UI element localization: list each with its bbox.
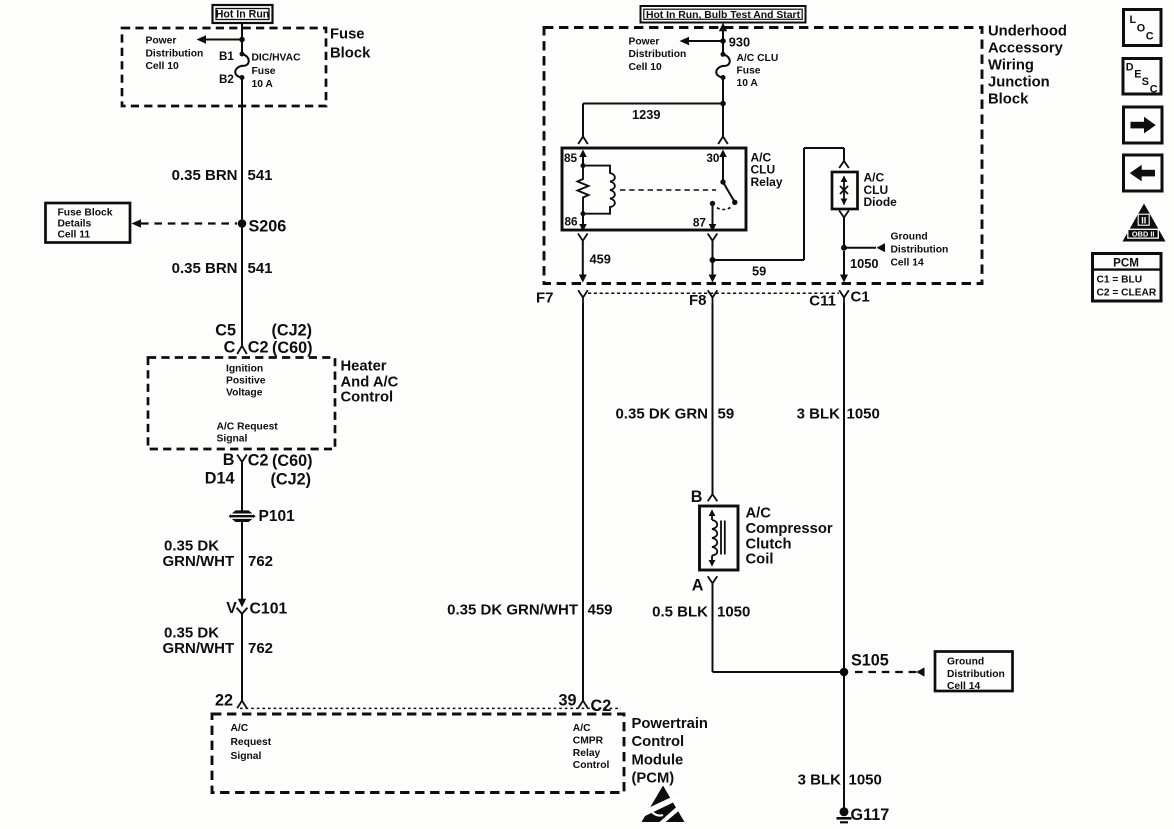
power distribution arrow [197, 35, 241, 43]
relay coil resistor [578, 163, 589, 216]
svg-text:541: 541 [248, 260, 273, 277]
wire to P101 [241, 462, 243, 511]
connector C11 / C1 [809, 288, 869, 309]
svg-text:B: B [223, 451, 235, 469]
svg-text:CMPR: CMPR [573, 735, 604, 746]
label 0.35 BRN 541 (lower) [172, 260, 273, 277]
svg-text:A/C CLU: A/C CLU [737, 53, 779, 64]
svg-text:Positive: Positive [226, 375, 266, 386]
svg-text:Fuse: Fuse [737, 66, 761, 77]
svg-text:(CJ2): (CJ2) [271, 470, 311, 488]
svg-text:Accessory: Accessory [988, 40, 1064, 56]
svg-text:1050: 1050 [717, 604, 750, 621]
svg-text:O: O [1137, 23, 1145, 35]
label Heater And A/C Control [341, 359, 399, 406]
svg-text:Cell 14: Cell 14 [947, 681, 980, 692]
svg-text:Wiring: Wiring [988, 57, 1034, 73]
svg-text:E: E [1134, 69, 1141, 81]
svg-text:Ground: Ground [947, 657, 984, 668]
svg-text:Details: Details [58, 218, 92, 229]
wire 0.35 DK GRN 59 [712, 304, 714, 495]
label 3 BLK 1050 (upper) [797, 405, 880, 422]
wire fuse to node 1239 [722, 78, 724, 104]
svg-text:10 A: 10 A [252, 79, 274, 90]
relay actuation dashed link [620, 189, 716, 191]
svg-text:39: 39 [558, 691, 576, 709]
svg-text:F7: F7 [536, 289, 554, 306]
connector below diode [839, 211, 849, 218]
button next page arrow [1124, 107, 1163, 143]
label 0.5 BLK 1050 [652, 604, 750, 621]
PCM connector color legend [1093, 254, 1162, 302]
svg-text:930: 930 [729, 34, 750, 49]
wire 59 drop [712, 241, 714, 260]
svg-text:Fuse: Fuse [330, 26, 365, 42]
svg-text:459: 459 [590, 252, 611, 267]
svg-text:Ignition: Ignition [226, 363, 263, 374]
svg-text:C2: C2 [591, 697, 612, 715]
ground G117 [837, 806, 890, 824]
svg-text:Distribution: Distribution [891, 245, 949, 256]
svg-text:DIC/HVAC: DIC/HVAC [252, 53, 302, 64]
label 0.35 DK GRN/WHT 762 (upper) [163, 537, 274, 570]
svg-text:Hot In Run: Hot In Run [216, 9, 270, 21]
relay coil inductor [583, 166, 615, 214]
svg-text:1050: 1050 [849, 771, 882, 788]
svg-text:Clutch: Clutch [746, 536, 792, 552]
svg-text:0.5 BLK: 0.5 BLK [652, 604, 708, 621]
connector F8 [689, 290, 717, 309]
svg-text:Junction: Junction [988, 74, 1050, 90]
wire 0.35 BRN 541 lower [241, 228, 243, 341]
svg-text:Fuse Block: Fuse Block [58, 207, 113, 218]
svg-text:B: B [691, 488, 703, 506]
svg-text:Diode: Diode [864, 195, 898, 209]
svg-text:Fuse: Fuse [252, 66, 276, 77]
wire C1 drop with arrow [840, 251, 848, 283]
node 1239 branch [720, 101, 726, 107]
A/C CLU relay box [562, 148, 746, 230]
relay pin 85 [564, 150, 587, 167]
svg-text:Ground: Ground [891, 232, 928, 243]
label Ground Distribution Cell 14 (upper) [891, 232, 949, 269]
label A/C CMPR Relay Control [573, 723, 610, 771]
ground distribution reference arrow (diode) [844, 243, 885, 252]
svg-text:Control: Control [341, 390, 394, 406]
svg-text:C1: C1 [851, 288, 870, 305]
svg-text:762: 762 [248, 553, 273, 570]
svg-text:Control: Control [573, 760, 610, 771]
svg-text:P101: P101 [259, 508, 296, 525]
svg-text:C2 = CLEAR: C2 = CLEAR [1097, 288, 1157, 299]
label 3 BLK 1050 (lower) [798, 771, 882, 788]
connector C101 [226, 599, 287, 618]
A/C CLU diode [832, 172, 858, 209]
svg-text:G117: G117 [851, 806, 890, 824]
reference arrow to fuse block details [132, 219, 238, 227]
node 59 junction [710, 257, 716, 263]
relay pin 86 [565, 214, 587, 232]
label Powertrain Control Module (PCM) [632, 716, 708, 786]
reference arrow to ground distribution [855, 667, 925, 676]
svg-text:(C60): (C60) [272, 339, 312, 357]
wire hot-in-run feed [241, 23, 243, 52]
underhood accessory wiring junction block dashed box [544, 28, 982, 284]
label DIC/HVAC Fuse 10 A [252, 53, 302, 91]
svg-text:0.35 DK GRN: 0.35 DK GRN [615, 405, 708, 422]
svg-text:D: D [1126, 62, 1134, 74]
svg-text:Power: Power [629, 36, 660, 47]
svg-text:Powertrain: Powertrain [632, 716, 708, 732]
svg-text:30: 30 [706, 151, 720, 165]
wire 0.35 DK GRN/WHT 762 upper [241, 521, 243, 600]
svg-text:0.35 DK: 0.35 DK [164, 624, 219, 641]
label Ignition Positive Voltage [226, 363, 266, 398]
svg-text:1239: 1239 [632, 107, 660, 122]
fuse A/C CLU 10 A [716, 52, 730, 80]
label 0.35 DK GRN/WHT 762 (lower) [163, 624, 274, 657]
svg-text:And A/C: And A/C [341, 374, 399, 390]
node splice S105 [840, 651, 889, 676]
button DESC [1123, 59, 1161, 96]
label 0.35 DK GRN/WHT 459 [447, 602, 612, 619]
label A/C Request Signal [217, 422, 279, 445]
label 1050 (junction block) [850, 256, 878, 271]
node power distribution tap [239, 37, 245, 43]
svg-text:C101: C101 [250, 600, 288, 617]
wire 0.5 BLK 1050 [713, 583, 842, 672]
svg-text:Voltage: Voltage [226, 387, 263, 398]
svg-text:F8: F8 [689, 292, 707, 309]
svg-text:Request: Request [231, 737, 272, 748]
svg-text:0.35 BRN: 0.35 BRN [172, 260, 238, 277]
svg-text:3 BLK: 3 BLK [797, 405, 841, 422]
svg-text:Distribution: Distribution [146, 48, 204, 59]
powertrain control module dashed box [212, 714, 624, 793]
relay pin 30 arrow [706, 150, 726, 183]
svg-text:Heater: Heater [341, 359, 387, 375]
svg-text:Control: Control [632, 734, 685, 750]
svg-text:Cell 11: Cell 11 [58, 229, 91, 240]
fuse DIC/HVAC 10 A [235, 54, 249, 78]
OBD II symbol [1123, 204, 1166, 242]
svg-text:Compressor: Compressor [746, 521, 833, 537]
svg-text:1050: 1050 [847, 405, 880, 422]
power distribution arrow (right) [680, 37, 722, 45]
label Power Distribution Cell 10 (right) [629, 36, 687, 72]
junction block bottom connector dotted line [588, 292, 839, 294]
svg-text:A/C Request: A/C Request [217, 422, 279, 433]
connector into relay pin 30 [718, 137, 728, 145]
label box Fuse Block Details Cell 11 [46, 203, 131, 243]
svg-text:S206: S206 [249, 217, 287, 235]
wire 3 BLK 1050 to ground [843, 672, 845, 808]
connector C5 / C2 (C60) [215, 321, 312, 357]
wire 459 [579, 241, 587, 283]
wire fuse to relay pin 30 [722, 104, 724, 137]
wire 0.35 BRN 541 upper [241, 78, 243, 220]
svg-text:GRN/WHT: GRN/WHT [163, 553, 235, 570]
svg-text:A: A [692, 576, 704, 594]
svg-text:Signal: Signal [231, 751, 262, 762]
svg-text:Distribution: Distribution [947, 669, 1005, 680]
svg-text:Relay: Relay [751, 175, 783, 189]
ESD sensitive device symbol [642, 786, 685, 823]
svg-text:B1: B1 [219, 50, 234, 63]
svg-text:3 BLK: 3 BLK [798, 771, 842, 788]
svg-text:0.35 DK GRN/WHT: 0.35 DK GRN/WHT [447, 602, 578, 619]
svg-text:S105: S105 [851, 651, 889, 669]
connector into relay pin 85 [578, 137, 588, 145]
label A/C Request Signal (PCM) [231, 723, 272, 762]
svg-text:C2: C2 [248, 339, 269, 357]
svg-text:PCM: PCM [1113, 256, 1139, 269]
pin B1 [219, 50, 245, 63]
label A/C CLU Fuse 10 A [737, 53, 779, 89]
svg-text:B2: B2 [219, 73, 234, 86]
label Hot In Run (power feed) [213, 5, 273, 23]
label 0.35 BRN 541 (upper) [172, 167, 273, 184]
PCM connector dotted line [240, 707, 621, 709]
wire F8 drop with arrow [709, 260, 717, 283]
grommet P101 [230, 508, 295, 525]
svg-text:A/C: A/C [746, 506, 772, 522]
wire 1239 horizontal [583, 104, 723, 137]
svg-text:C2: C2 [248, 451, 269, 469]
heater and A/C control dashed box [148, 358, 335, 450]
svg-text:Signal: Signal [217, 434, 248, 445]
svg-text:(CJ2): (CJ2) [272, 321, 312, 339]
button previous page arrow [1124, 155, 1163, 191]
label A/C Compressor Clutch Coil [746, 506, 833, 568]
svg-text:Hot In Run, Bulb Test And Star: Hot In Run, Bulb Test And Start [646, 10, 801, 21]
svg-text:C11: C11 [809, 292, 836, 309]
svg-text:(C60): (C60) [272, 452, 312, 470]
svg-text:Cell 10: Cell 10 [629, 62, 662, 73]
pin B of compressor clutch coil [691, 488, 718, 506]
svg-text:85: 85 [564, 151, 578, 165]
label 0.35 DK GRN 59 [615, 405, 734, 422]
fuse block dashed box [122, 28, 326, 106]
relay pin 87 [693, 204, 716, 232]
connector F7 [536, 289, 588, 306]
svg-text:(PCM): (PCM) [632, 770, 675, 786]
svg-text:762: 762 [248, 640, 273, 657]
pin B2 [219, 73, 245, 86]
pin A of compressor clutch coil [692, 576, 718, 594]
svg-text:Cell 14: Cell 14 [891, 258, 924, 269]
svg-text:A/C: A/C [231, 723, 249, 734]
svg-text:II: II [1141, 216, 1146, 226]
relay switch [710, 179, 738, 209]
label Fuse Block [330, 26, 371, 61]
svg-text:Power: Power [146, 36, 177, 47]
label Power Distribution Cell 10 [146, 36, 204, 72]
svg-text:OBD II: OBD II [1132, 230, 1155, 239]
wire 0.35 DK GRN/WHT 762 lower [241, 614, 243, 701]
pin 39 / C2 into PCM [558, 691, 611, 715]
svg-text:Underhood: Underhood [988, 23, 1067, 39]
svg-text:Block: Block [330, 45, 371, 61]
connector B / C2 (C60) / D14 (CJ2) [205, 451, 313, 489]
label A/C CLU Diode [864, 171, 898, 210]
label box Ground Distribution Cell 14 [935, 652, 1013, 693]
A/C compressor clutch coil box [700, 506, 739, 570]
wire 0.35 DK GRN/WHT 459 [582, 304, 584, 701]
svg-text:541: 541 [248, 167, 273, 184]
svg-text:86: 86 [565, 214, 579, 228]
svg-text:59: 59 [718, 405, 735, 422]
svg-text:V: V [226, 600, 237, 617]
connector below pin 87 [708, 234, 718, 241]
button LOC [1124, 10, 1162, 46]
svg-text:L: L [1130, 14, 1137, 26]
svg-text:Module: Module [632, 752, 684, 768]
svg-text:C: C [1150, 83, 1158, 95]
svg-text:Coil: Coil [746, 552, 774, 568]
svg-text:Distribution: Distribution [629, 49, 687, 60]
svg-text:459: 459 [588, 602, 613, 619]
svg-text:1050: 1050 [850, 256, 878, 271]
svg-text:Relay: Relay [573, 748, 601, 759]
svg-text:A/C: A/C [573, 723, 591, 734]
wire 59 horizontal to diode branch [713, 148, 845, 260]
svg-text:S: S [1142, 76, 1149, 88]
node ground distribution tap [841, 245, 847, 251]
svg-text:Block: Block [988, 91, 1029, 107]
svg-text:59: 59 [752, 263, 766, 278]
svg-text:0.35 DK: 0.35 DK [164, 537, 219, 554]
label A/C CLU Relay [751, 150, 783, 189]
svg-text:87: 87 [693, 215, 707, 229]
compressor coil element [709, 510, 725, 567]
label 59 [752, 263, 766, 278]
svg-text:GRN/WHT: GRN/WHT [163, 640, 235, 657]
wire diode to ground tap [843, 218, 845, 248]
svg-text:C: C [1146, 30, 1154, 42]
svg-text:C1 = BLU: C1 = BLU [1097, 275, 1143, 286]
svg-text:22: 22 [215, 691, 233, 709]
label Hot In Run, Bulb Test And Start [641, 6, 806, 23]
svg-text:C5: C5 [215, 321, 236, 339]
label Underhood Accessory Wiring Junction Block [988, 23, 1067, 107]
wire into junction block with up arrow [719, 23, 727, 53]
pin 22 into PCM [215, 691, 247, 709]
svg-text:10 A: 10 A [737, 78, 759, 89]
svg-text:Cell 10: Cell 10 [146, 61, 179, 72]
label 1239 [632, 107, 660, 122]
svg-text:D14: D14 [205, 469, 235, 487]
wire 3 BLK 1050 upper [843, 304, 845, 670]
label 459 [590, 252, 611, 267]
node 930 tap [720, 34, 750, 49]
svg-text:0.35 BRN: 0.35 BRN [172, 167, 238, 184]
connector into diode [839, 161, 849, 168]
connector below pin 86 [578, 234, 588, 241]
node splice S206 [238, 217, 287, 235]
svg-text:C: C [224, 339, 236, 357]
